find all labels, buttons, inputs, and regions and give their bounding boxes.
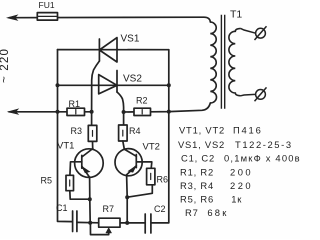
arrow R7 wiper (106, 228, 112, 233)
node dot left bus VS2 (56, 83, 60, 87)
svg-text:R7: R7 (185, 207, 199, 218)
resistor R4 (119, 125, 128, 141)
arrow mains bottom (8, 109, 18, 114)
svg-text:R7: R7 (103, 204, 115, 214)
wire bottom rail left (77, 221, 99, 223)
wire secondary bottom lead (241, 94, 256, 95)
node dot R1 gate junction (90, 110, 94, 114)
svg-text:VS1: VS1 (121, 34, 140, 45)
svg-text:R5, R6: R5, R6 (180, 193, 214, 204)
svg-text:200: 200 (230, 166, 253, 177)
svg-text:FU1: FU1 (39, 0, 55, 10)
svg-text:C1, C2: C1, C2 (181, 153, 215, 164)
capacitor C2 (145, 214, 151, 233)
thyristor VS1 (99, 38, 117, 62)
svg-text:R1, R2: R1, R2 (180, 166, 214, 177)
node dot R2 gate junction (122, 110, 126, 114)
svg-text:220: 220 (230, 180, 253, 191)
fuse FU1 (37, 13, 57, 21)
svg-text:Т122-25-3: Т122-25-3 (235, 139, 293, 150)
svg-text:0,1мкФ х 400в: 0,1мкФ х 400в (224, 153, 300, 164)
wire secondary top lead (241, 28, 256, 33)
svg-text:C1: C1 (56, 203, 68, 213)
svg-text:VT1: VT1 (57, 141, 74, 152)
wire VT1 emitter down (89, 177, 92, 222)
node dot rail VT1 (88, 221, 92, 225)
node dot left bus R1 (56, 110, 60, 114)
wire R1 mains line (9, 111, 92, 113)
node dot rail VT2 (125, 221, 129, 225)
thyristor VS2 (99, 71, 117, 94)
transformer T1 secondary winding (229, 28, 241, 95)
wire R7 wiper (90, 223, 108, 235)
wire R4 to VT2 collector (123, 141, 125, 149)
wire R3 to VT1 collector (92, 141, 94, 148)
svg-text:R4: R4 (129, 126, 141, 136)
svg-text:R5: R5 (41, 176, 53, 186)
fuse FU1 inner line (37, 15, 57, 17)
svg-text:VT2: VT2 (143, 142, 160, 153)
resistor R3 (88, 125, 97, 141)
node dot right bus VS2 (167, 83, 171, 87)
wire R5 bottom to emitter junction (70, 191, 90, 200)
svg-text:VT1, VT2: VT1, VT2 (179, 125, 225, 136)
svg-text:R1: R1 (69, 99, 81, 109)
arrow VT1 emitter (82, 167, 89, 173)
wire right bus (152, 50, 169, 223)
resistor R5 (66, 175, 74, 190)
node dot R6 emitter junction (125, 195, 129, 199)
wire top mains line (9, 17, 210, 22)
wire left bus (58, 50, 73, 222)
terminal bottom (255, 87, 267, 101)
arrow VT2 emitter (129, 166, 136, 172)
resistor R1 (67, 108, 85, 115)
transistor VT2 (115, 149, 142, 176)
svg-text:VS2: VS2 (123, 74, 142, 85)
wire VS1 gate (92, 61, 100, 125)
svg-text:R3: R3 (71, 126, 83, 136)
svg-text:T1: T1 (230, 9, 242, 21)
svg-text:VS1, VS2: VS1, VS2 (178, 139, 225, 150)
wire R2 to transformer (124, 103, 211, 112)
wire VT2 emitter down (126, 175, 129, 223)
wire VS2 gate (117, 92, 124, 125)
resistor R7 potentiometer (99, 218, 120, 227)
resistor R2 (134, 108, 151, 115)
transistor VT1 (75, 149, 104, 178)
svg-text:C2: C2 (154, 204, 166, 214)
terminal top (255, 26, 267, 40)
wire bottom rail mid (120, 222, 145, 224)
svg-text:R6: R6 (157, 175, 169, 185)
svg-text:1к: 1к (231, 193, 242, 204)
svg-text:~ 220: ~ 220 (0, 48, 11, 83)
capacitor C1 (73, 211, 77, 232)
wire VS1 anode line (58, 49, 169, 51)
parts table (178, 125, 301, 219)
svg-text:68к: 68к (207, 207, 228, 218)
svg-text:R2: R2 (136, 96, 148, 106)
transformer T1 core (221, 15, 224, 109)
svg-text:R3, R4: R3, R4 (180, 180, 214, 191)
node dot R5 emitter junction (88, 197, 92, 201)
node dot right bus R2 (167, 110, 171, 114)
wire R6 bottom to VT2 emitter junction (127, 185, 152, 197)
wire VS2 line (58, 84, 169, 86)
arrow mains top (7, 15, 17, 20)
svg-text:П416: П416 (233, 125, 263, 136)
transformer T1 primary winding (210, 22, 216, 103)
resistor R6 (147, 168, 155, 185)
